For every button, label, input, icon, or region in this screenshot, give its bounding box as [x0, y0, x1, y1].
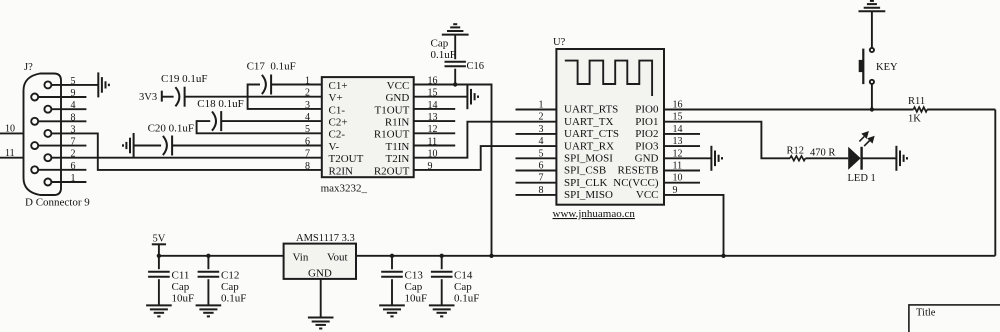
- junction C16-VCC: [453, 82, 457, 86]
- DB9 pin 5 circle: [44, 81, 51, 88]
- svg-text:PIO2: PIO2: [635, 128, 658, 140]
- svg-text:4: 4: [539, 136, 544, 147]
- wire pin3 to R2IN: [52, 133, 322, 170]
- svg-text:PIO3: PIO3: [635, 140, 659, 152]
- svg-text:6: 6: [71, 161, 76, 172]
- svg-text:R1OUT: R1OUT: [374, 129, 410, 141]
- svg-text:0.1uF: 0.1uF: [454, 293, 479, 305]
- wire pin4: [52, 108, 87, 110]
- svg-text:T2OUT: T2OUT: [329, 153, 364, 165]
- wire ground to KEY: [871, 11, 873, 48]
- ground at DB9 pin5: [98, 72, 109, 97]
- svg-text:Vout: Vout: [327, 251, 348, 263]
- DB9 pin 1 circle: [44, 179, 51, 186]
- svg-text:C17 0.1uF: C17 0.1uF: [247, 61, 296, 73]
- DB9 pin number labels: [71, 76, 76, 184]
- svg-text:AMS1117 3.3: AMS1117 3.3: [296, 233, 355, 244]
- svg-text:KEY: KEY: [876, 62, 898, 73]
- capacitor C13: [391, 256, 393, 306]
- svg-text:7: 7: [305, 149, 310, 160]
- IC U? max3232 box: [322, 77, 414, 177]
- capacitor C17: [248, 85, 322, 109]
- antenna meander: [565, 61, 652, 96]
- wire T1OUT pin14 stub: [414, 108, 456, 110]
- DB9 pin 7 circle: [31, 142, 38, 149]
- svg-text:SPI_MISO: SPI_MISO: [564, 189, 613, 201]
- svg-text:C12: C12: [221, 270, 239, 282]
- LED1 arrows: [859, 132, 873, 146]
- svg-text:3V3: 3V3: [139, 92, 157, 103]
- svg-text:UART_RTS: UART_RTS: [564, 104, 618, 116]
- svg-text:Vin: Vin: [293, 251, 309, 263]
- svg-text:1: 1: [305, 75, 310, 86]
- svg-text:R11: R11: [908, 96, 925, 107]
- wire pin1: [52, 181, 87, 183]
- svg-text:Cap: Cap: [431, 38, 449, 50]
- switch KEY: [863, 48, 874, 84]
- svg-text:UART_TX: UART_TX: [564, 116, 614, 128]
- svg-text:PIO1: PIO1: [635, 116, 658, 128]
- wire R12 right to LED: [805, 157, 848, 159]
- svg-text:D Connector 9: D Connector 9: [25, 197, 90, 209]
- svg-text:C2-: C2-: [329, 129, 346, 141]
- max3232 right pin names: [374, 80, 410, 177]
- junction U? VCC at rail: [721, 254, 725, 258]
- max3232 left pin numbers: [305, 75, 310, 171]
- svg-text:9: 9: [71, 88, 76, 99]
- svg-text:T2IN: T2IN: [385, 153, 409, 165]
- svg-text:GND: GND: [635, 153, 659, 165]
- svg-text:Title: Title: [916, 307, 936, 318]
- DB9 pin 8 circle: [31, 118, 38, 125]
- module U? (jnhuamao bluetooth) box: [556, 49, 664, 205]
- capacitor C14: [441, 256, 443, 306]
- svg-text:5V: 5V: [153, 234, 166, 245]
- svg-text:R12: R12: [787, 146, 805, 157]
- wire pin7: [39, 145, 87, 147]
- svg-text:LED 1: LED 1: [848, 173, 876, 184]
- svg-text:PIO0: PIO0: [635, 104, 659, 116]
- svg-text:UART_RX: UART_RX: [564, 140, 614, 152]
- capacitor C19: [162, 96, 322, 98]
- svg-text:C13: C13: [405, 270, 424, 282]
- svg-text:2: 2: [539, 112, 544, 123]
- wire R2OUT pin9 to UART_RX: [414, 146, 557, 170]
- svg-text:RESETB: RESETB: [618, 165, 659, 177]
- wire VCC pin16 to 3V3 rail drop: [414, 85, 492, 256]
- U? left stubs pins 1,3,5,6,7,8: [516, 109, 557, 111]
- svg-text:470 R: 470 R: [810, 147, 835, 158]
- svg-text:T1OUT: T1OUT: [374, 104, 409, 116]
- wire R1OUT pin12 stub: [414, 132, 456, 134]
- capacitor C12: [207, 256, 209, 306]
- wire pin10 stub: [0, 132, 24, 134]
- svg-text:6: 6: [305, 136, 310, 147]
- svg-text:C20 0.1uF: C20 0.1uF: [148, 123, 194, 135]
- svg-text:1K: 1K: [908, 114, 921, 125]
- DB9 pin 9 circle: [31, 94, 38, 101]
- svg-text:C16: C16: [467, 61, 485, 72]
- junction VCC drop to 3.3V rail: [489, 254, 493, 258]
- U? right pin numbers: [673, 100, 683, 196]
- svg-text:GND: GND: [308, 268, 332, 280]
- max3232 right pin numbers: [428, 75, 438, 171]
- ground right of LED1: [896, 146, 907, 171]
- wire LED to ground: [862, 157, 896, 159]
- svg-text:8: 8: [71, 112, 76, 123]
- svg-text:GND: GND: [385, 92, 409, 104]
- svg-text:1: 1: [71, 173, 76, 184]
- DB9 pin 2 circle: [44, 154, 51, 161]
- U? left pin names: [564, 104, 619, 201]
- svg-text:10: 10: [5, 124, 15, 135]
- U? left pin numbers: [539, 100, 544, 196]
- svg-text:2: 2: [71, 149, 76, 160]
- svg-text:0.1uF: 0.1uF: [431, 49, 456, 61]
- svg-text:VCC: VCC: [636, 189, 659, 201]
- svg-text:R2IN: R2IN: [329, 165, 354, 177]
- LED LED1: [848, 147, 861, 170]
- wire U? VCC pin9 to rail: [664, 195, 724, 256]
- wire 5V to rail: [158, 244, 160, 256]
- svg-text:NC(VCC): NC(VCC): [613, 177, 659, 189]
- capacitor C20: [134, 145, 322, 147]
- svg-text:UART_CTS: UART_CTS: [564, 128, 619, 140]
- svg-text:Cap: Cap: [221, 281, 239, 293]
- svg-text:C1+: C1+: [329, 80, 348, 92]
- svg-text:C2+: C2+: [329, 117, 348, 129]
- svg-text:5: 5: [305, 124, 310, 135]
- capacitor C11: [158, 256, 160, 306]
- key ground (top): [859, 1, 886, 11]
- regulator AMS1117 box: [284, 244, 356, 279]
- wire PIO0 row: to R11 and right edge drop: [664, 109, 913, 111]
- svg-text:SPI_CSB: SPI_CSB: [564, 165, 606, 177]
- connector J? (DB9) body: [24, 74, 62, 196]
- wire GND pin15: [414, 96, 468, 98]
- svg-text:max3232_: max3232_: [321, 183, 368, 195]
- wire T1IN pin11 stub: [414, 145, 456, 147]
- wire pin6: [39, 169, 87, 171]
- svg-text:U?: U?: [553, 37, 566, 48]
- svg-text:J?: J?: [24, 62, 33, 73]
- svg-text:5: 5: [71, 76, 76, 87]
- U? right pin names: [613, 104, 659, 201]
- svg-text:V+: V+: [329, 92, 343, 104]
- wire pin11 stub: [0, 157, 24, 159]
- wire T2IN pin10 to UART_TX: [414, 122, 557, 158]
- title block: [909, 305, 1000, 332]
- wire AMS GND to ground: [320, 279, 322, 318]
- svg-text:www.jnhuamao.cn: www.jnhuamao.cn: [553, 208, 636, 220]
- max3232 left pin names: [329, 80, 364, 177]
- svg-text:Cap: Cap: [405, 281, 423, 293]
- resistor R12: [790, 156, 805, 161]
- DB9 pin 6 circle: [31, 166, 38, 173]
- DB9 pin 3 circle: [44, 130, 51, 137]
- svg-text:10uF: 10uF: [172, 293, 195, 305]
- svg-text:4: 4: [71, 100, 76, 111]
- svg-text:7: 7: [71, 137, 76, 148]
- svg-text:C14: C14: [454, 270, 473, 282]
- U? right stubs pins 14,13,11,10: [664, 133, 700, 135]
- DB9 pin 4 circle: [44, 106, 51, 113]
- ground at C20: [123, 133, 134, 158]
- wire 3.3V rail (right of AMS1117): [356, 255, 995, 257]
- junction KEY wire: [870, 107, 874, 111]
- ground at max3232 GND: [467, 84, 478, 109]
- svg-text:4: 4: [305, 112, 310, 123]
- wire pin2 to T2OUT: [52, 157, 322, 159]
- svg-text:Cap: Cap: [454, 281, 472, 293]
- ground at AMS1117: [308, 318, 334, 329]
- wire R1IN pin13 stub: [414, 120, 456, 122]
- svg-text:SPI_MOSI: SPI_MOSI: [564, 153, 613, 165]
- svg-text:8: 8: [305, 161, 310, 172]
- svg-text:SPI_CLK: SPI_CLK: [564, 177, 607, 189]
- svg-text:R1IN: R1IN: [385, 117, 410, 129]
- svg-text:3: 3: [305, 100, 310, 111]
- svg-text:2: 2: [305, 88, 310, 99]
- svg-text:Cap: Cap: [172, 281, 190, 293]
- svg-text:C11: C11: [172, 270, 190, 282]
- ground at U? GND pin12: [711, 146, 722, 171]
- wire pin5: [52, 84, 99, 86]
- ground above C16: [442, 24, 469, 34]
- svg-text:0.1uF: 0.1uF: [221, 293, 246, 305]
- svg-text:C18 0.1uF: C18 0.1uF: [197, 98, 243, 110]
- wire pin8: [39, 120, 87, 122]
- wire U? GND pin12: [664, 157, 711, 159]
- svg-text:VCC: VCC: [387, 80, 410, 92]
- svg-text:T1IN: T1IN: [385, 141, 409, 153]
- svg-text:R2OUT: R2OUT: [374, 165, 410, 177]
- wire 5V rail (left of AMS1117): [159, 255, 284, 257]
- svg-text:10uF: 10uF: [405, 293, 428, 305]
- wire pin9: [39, 96, 87, 98]
- capacitor C18: [197, 121, 322, 133]
- svg-text:V-: V-: [329, 141, 340, 153]
- svg-text:3: 3: [71, 124, 76, 135]
- svg-text:11: 11: [5, 148, 15, 159]
- wire PIO1 to R12/LED: [664, 122, 790, 159]
- capacitor C16: [454, 35, 456, 85]
- resistor R11: [913, 107, 927, 112]
- svg-text:C19 0.1uF: C19 0.1uF: [161, 73, 207, 85]
- 3V3 power bar: [161, 91, 163, 102]
- svg-text:C1-: C1-: [329, 104, 346, 116]
- wire KEY to PIO0 row: [871, 84, 873, 110]
